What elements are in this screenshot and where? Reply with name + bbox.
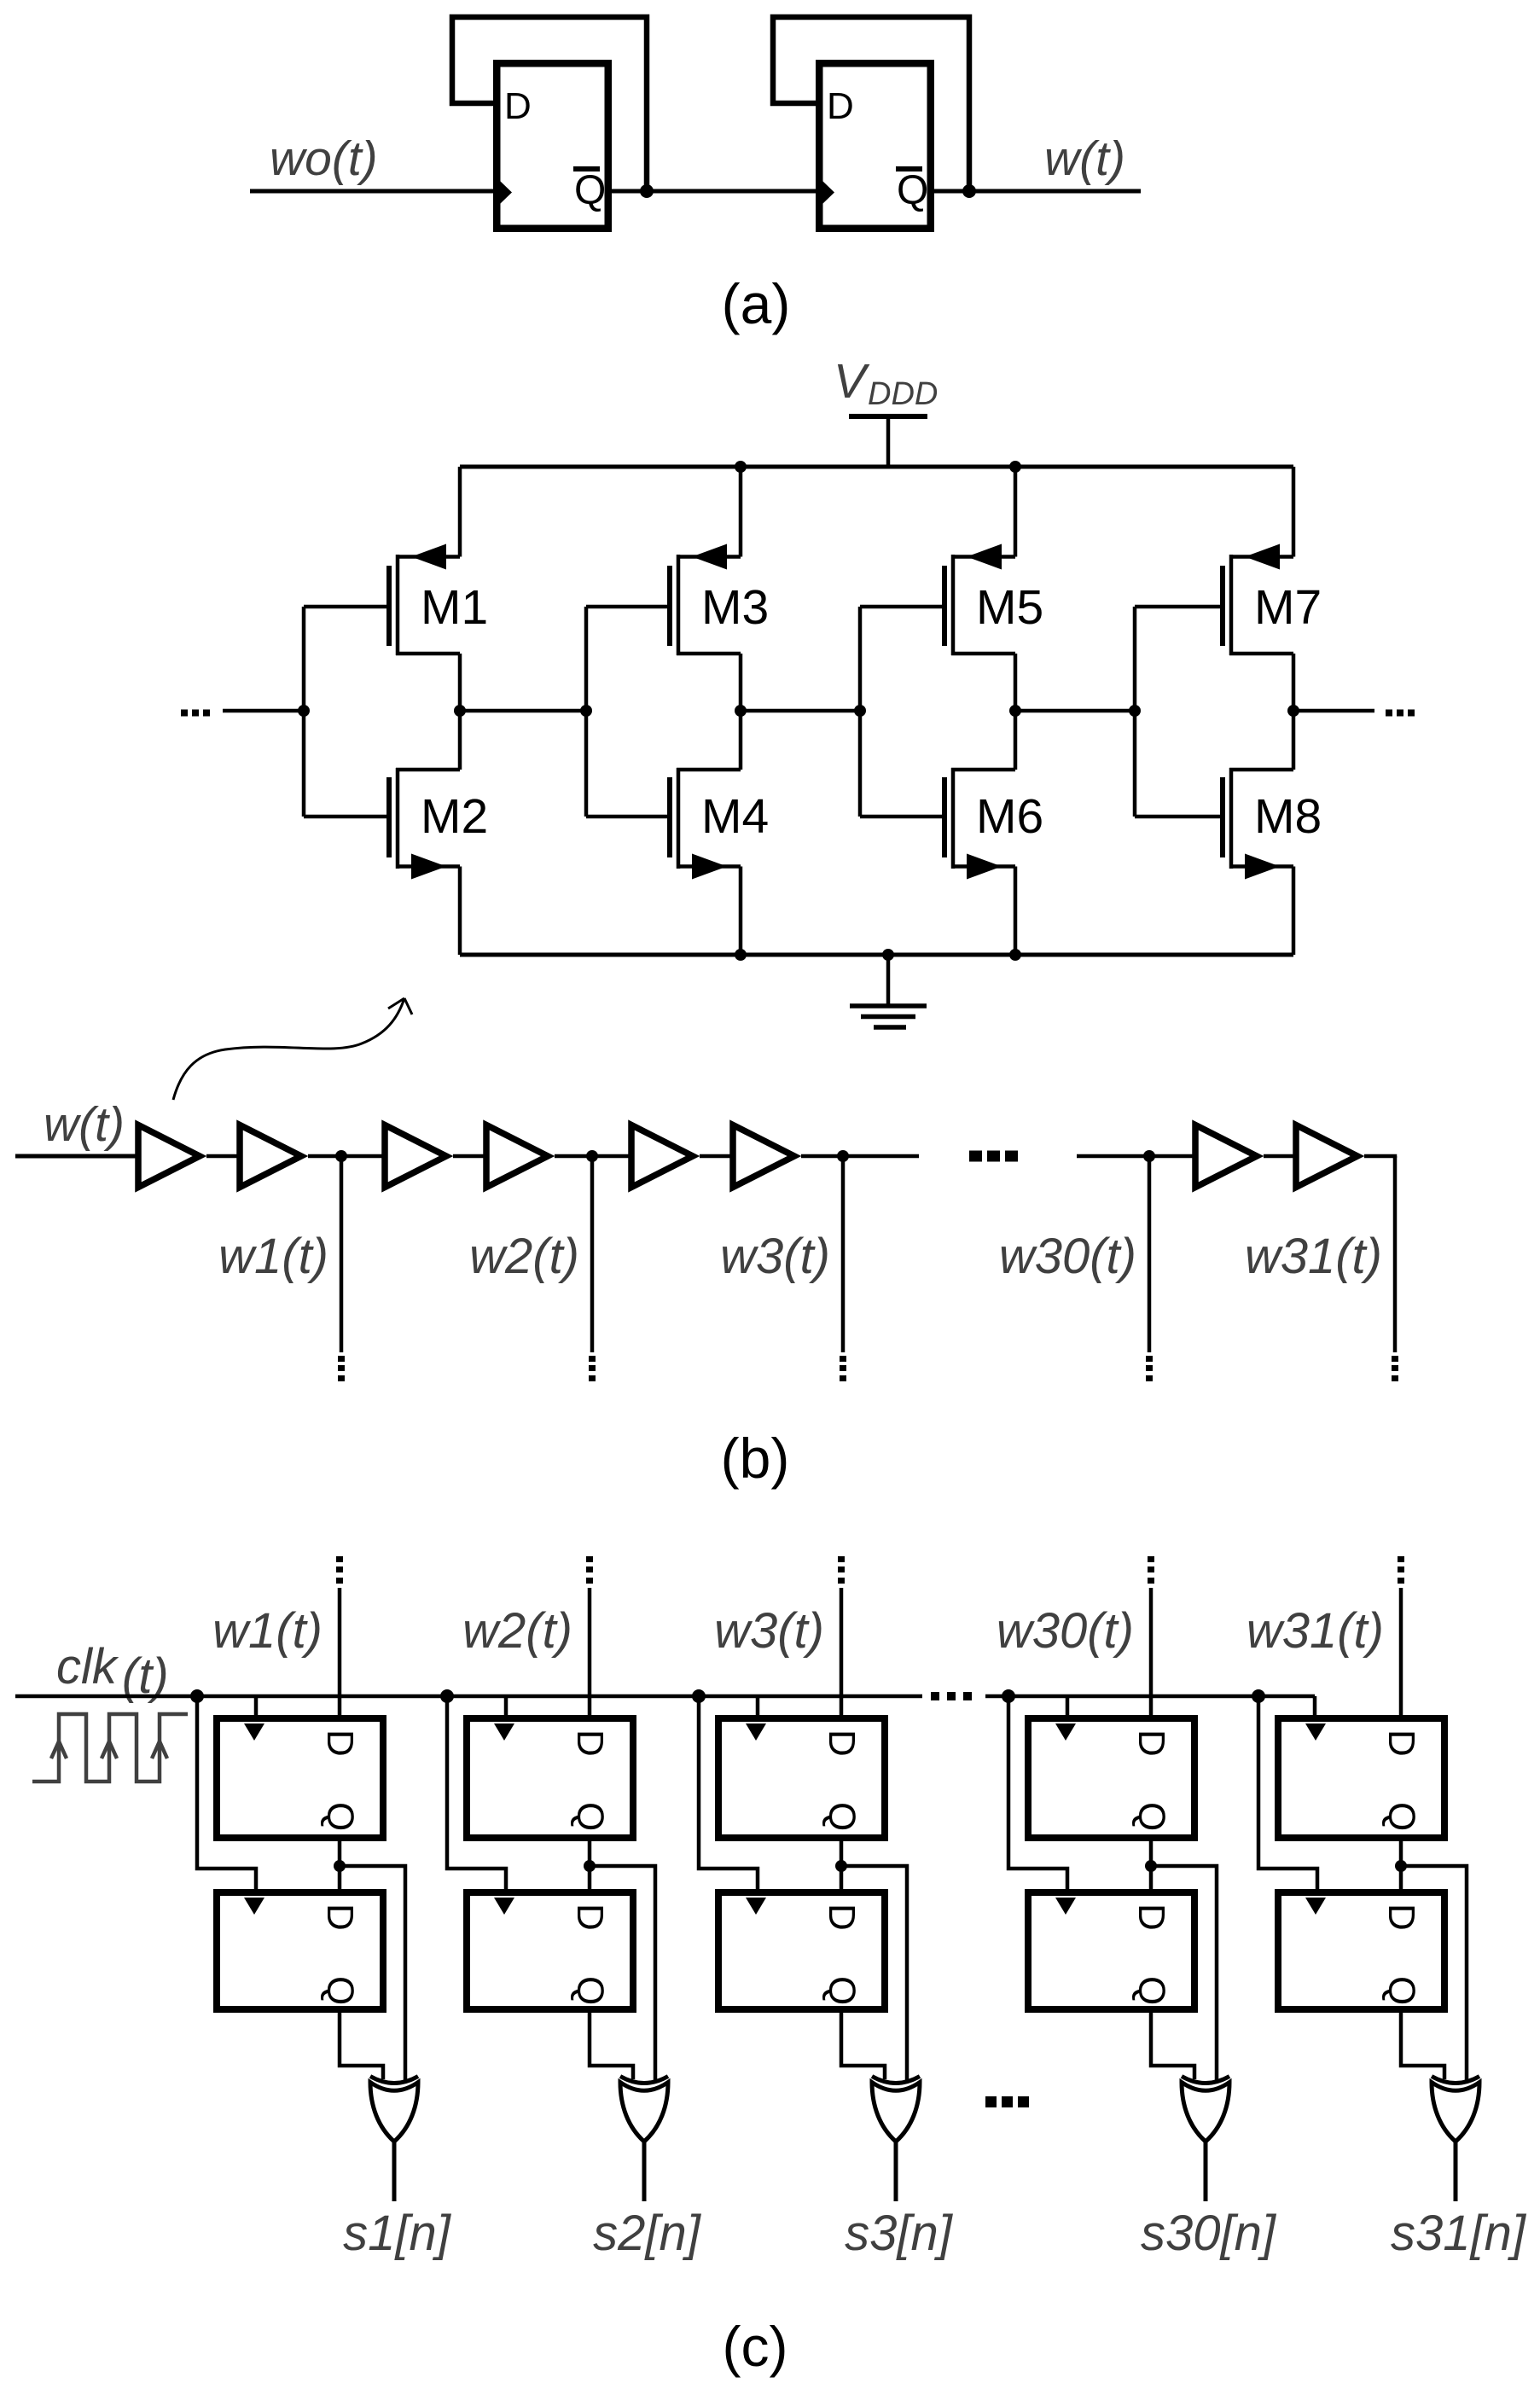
wire XOR input from Q4 node [1151, 1866, 1217, 2083]
transistor M4 (NMOS) [586, 711, 769, 955]
chain ellipsis [969, 1151, 1018, 1162]
svg-text:w31(t): w31(t) [1245, 1229, 1382, 1284]
node Q4 [1145, 1860, 1157, 1872]
wire B2 to tap w1 [308, 1154, 385, 1159]
wire B3-B4 [453, 1154, 486, 1159]
wire tap w3(t) vertical [841, 1156, 846, 1352]
continuation dashes w3(t) [840, 1356, 846, 1381]
svg-text:s3[n]: s3[n] [845, 2206, 954, 2261]
wire clk route to FF1b [197, 1696, 256, 1892]
buffer B3 [385, 1125, 446, 1188]
D flip-flop FF1b [217, 1892, 383, 2009]
D flip-flop FF3b [718, 1892, 885, 2009]
svg-text:clk(t): clk(t) [56, 1639, 169, 1704]
buffer B5 [631, 1125, 693, 1188]
wire chain input [15, 1154, 140, 1159]
svg-text:Q: Q [319, 1802, 361, 1831]
svg-text:M2: M2 [421, 789, 488, 844]
XOR gate X5 [1432, 2077, 1479, 2142]
wire clk stub to FF2a [504, 1696, 508, 1718]
svg-text:D: D [821, 1729, 863, 1757]
node tap w1 [335, 1150, 347, 1162]
wire stage 3 output to stage 4 gates [1015, 709, 1135, 713]
wire B6 to tap w3 [801, 1154, 919, 1159]
wire clk stub to FF1a [254, 1696, 259, 1718]
buffer B2 [240, 1125, 301, 1188]
label VDDD [834, 354, 938, 412]
continuation dashes w31(t) top [1398, 1556, 1404, 1584]
node clk tap column 4 [1002, 1689, 1015, 1703]
wire tap w1(t) vertical [340, 1156, 344, 1352]
node Q1 [334, 1860, 346, 1872]
wire XOR input from FF5b Q [1401, 2011, 1444, 2079]
node bottom rail M4 [735, 949, 747, 961]
wire wo(t) input to U1 [250, 189, 493, 194]
XOR gate X3 [872, 2077, 920, 2142]
wire XOR input from FF2b Q [590, 2011, 633, 2079]
svg-text:wo(t): wo(t) [270, 131, 378, 186]
wire B5-B6 [700, 1154, 733, 1159]
wire XOR output s1[n] [392, 2142, 397, 2201]
node output stage 4 [1287, 705, 1299, 717]
wire XOR input from FF3b Q [841, 2011, 885, 2079]
wire clk stub to FF5a [1313, 1696, 1317, 1718]
wire XOR input from Q3 node [841, 1866, 907, 2083]
wire w31(t) input vertical [1399, 1588, 1403, 1721]
D flip-flop FF2b [467, 1892, 633, 2009]
svg-text:D: D [319, 1729, 361, 1757]
svg-text:M7: M7 [1254, 580, 1322, 635]
svg-text:s1[n]: s1[n] [343, 2206, 452, 2261]
XOR gate X2 [620, 2077, 668, 2142]
wire tap w30(t) vertical [1148, 1156, 1152, 1352]
wire w1(t) input vertical [338, 1588, 342, 1721]
svg-text:D: D [569, 1729, 611, 1757]
svg-text:(b): (b) [721, 1427, 790, 1490]
svg-text:Q: Q [1130, 1976, 1172, 2005]
wire XOR input from FF1b Q [340, 2011, 383, 2079]
node clk tap column 5 [1252, 1689, 1265, 1703]
wire Q of FF1a down [338, 1841, 342, 1889]
svg-text:w(t): w(t) [1044, 131, 1125, 186]
transistor M2 (NMOS) [304, 711, 488, 955]
power VDDD symbol [849, 416, 927, 467]
wire B7-B8 [1264, 1154, 1296, 1159]
node clk tap column 1 [190, 1689, 204, 1703]
wire B1-B2 [206, 1154, 240, 1159]
continuation dashes w1(t) [338, 1356, 345, 1381]
svg-text:D: D [1130, 1729, 1172, 1757]
wire XOR output s31[n] [1454, 2142, 1458, 2201]
node input ellipsis (left) [181, 710, 210, 717]
node gate column stage 4 [1129, 607, 1141, 817]
svg-text:Q: Q [821, 1802, 863, 1831]
svg-text:Q: Q [574, 168, 606, 213]
svg-text:Q: Q [1380, 1976, 1422, 2005]
svg-text:Q: Q [821, 1976, 863, 2005]
svg-text:w1(t): w1(t) [212, 1603, 323, 1659]
svg-text:s2[n]: s2[n] [593, 2206, 702, 2261]
D flip-flop U2 [819, 63, 931, 229]
svg-text:D: D [569, 1904, 611, 1931]
wire XOR input from Q5 node [1401, 1866, 1467, 2083]
wire clk line left [15, 1694, 922, 1699]
D flip-flop FF4a [1028, 1718, 1194, 1838]
wire XOR output s3[n] [894, 2142, 898, 2201]
D flip-flop FF3a [718, 1718, 885, 1838]
svg-text:w3(t): w3(t) [720, 1229, 830, 1284]
transistor M3 (PMOS) [586, 467, 769, 711]
D flip-flop U1 [497, 63, 608, 229]
buffer B1 [138, 1125, 200, 1188]
XOR gate X4 [1182, 2077, 1229, 2142]
svg-text:D: D [504, 85, 532, 127]
XOR gate X1 [370, 2077, 418, 2142]
clock waveform symbol [32, 1714, 188, 1782]
node output stage 2 [735, 705, 747, 717]
svg-text:w1(t): w1(t) [218, 1229, 328, 1284]
D flip-flop FF5b [1278, 1892, 1444, 2009]
wire B4 to tap w2 [555, 1154, 631, 1159]
svg-text:Q: Q [1380, 1802, 1422, 1831]
feedback wire U2 Qbar to D [773, 17, 969, 191]
svg-text:s31[n]: s31[n] [1391, 2206, 1527, 2261]
wire tap w30 to B7 [1077, 1154, 1195, 1159]
wire stage 2 output to stage 3 gates [741, 709, 860, 713]
svg-text:M4: M4 [701, 789, 769, 844]
node output ellipsis (right) [1386, 710, 1415, 717]
svg-text:D: D [319, 1904, 361, 1931]
svg-text:w(t): w(t) [44, 1097, 125, 1152]
D flip-flop FF2a [467, 1718, 633, 1838]
ground symbol [850, 955, 927, 1027]
node top rail M3 [735, 461, 747, 473]
node clk tap column 2 [440, 1689, 454, 1703]
svg-text:Q: Q [569, 1802, 611, 1831]
wire ground bottom rail [460, 953, 1293, 957]
node tap w30 [1143, 1150, 1155, 1162]
svg-text:Q: Q [319, 1976, 361, 2005]
svg-text:D: D [1380, 1729, 1422, 1757]
node Q5 [1395, 1860, 1407, 1872]
svg-text:M3: M3 [701, 580, 769, 635]
transistor M6 (NMOS) [860, 711, 1043, 955]
wire stage 1 output to stage 2 gates [460, 709, 586, 713]
svg-text:M6: M6 [976, 789, 1043, 844]
annotation curved arrow [173, 998, 412, 1100]
wire clk stub to FF3a [756, 1696, 760, 1718]
node gate column stage 3 [854, 607, 866, 817]
buffer B8 [1296, 1125, 1357, 1188]
XOR row ellipsis [985, 2096, 1029, 2107]
node top rail M5 [1009, 461, 1021, 473]
svg-text:V: V [834, 354, 870, 409]
wire w(t) output [934, 189, 1141, 194]
wire Q of FF2a down [588, 1841, 592, 1889]
wire XOR input from Q1 node [340, 1866, 405, 2083]
wire w30(t) input vertical [1149, 1588, 1154, 1721]
svg-text:w30(t): w30(t) [999, 1229, 1136, 1284]
node gate column stage 1 [298, 607, 310, 817]
wire XOR input from Q2 node [590, 1866, 655, 2083]
node bottom rail M6 [1009, 949, 1021, 961]
node Q2 [584, 1860, 596, 1872]
svg-text:D: D [827, 85, 854, 127]
node output stage 1 [454, 705, 466, 717]
svg-text:w30(t): w30(t) [997, 1603, 1134, 1659]
svg-text:(c): (c) [723, 2315, 788, 2378]
svg-text:M8: M8 [1254, 789, 1322, 844]
continuation dashes w2(t) [589, 1356, 596, 1381]
svg-text:Q: Q [1130, 1802, 1172, 1831]
node output stage 3 [1009, 705, 1021, 717]
wire clk route to FF4b [1008, 1696, 1067, 1892]
node clk tap column 3 [692, 1689, 706, 1703]
feedback wire U1 Qbar to D [452, 17, 647, 191]
svg-text:D: D [1380, 1904, 1422, 1931]
wire clk route to FF2b [447, 1696, 506, 1892]
wire input to M1/M2 gates [223, 709, 304, 713]
node tap w2 [586, 1150, 598, 1162]
wire w2(t) input vertical [588, 1588, 592, 1721]
svg-text:(a): (a) [722, 272, 791, 335]
wire B8 to tap w31 [1364, 1156, 1395, 1158]
wire XOR output s30[n] [1204, 2142, 1208, 2201]
D flip-flop FF5a [1278, 1718, 1444, 1838]
wire tap w2(t) vertical [590, 1156, 595, 1352]
transistor M8 (NMOS) [1135, 711, 1322, 955]
svg-text:M5: M5 [976, 580, 1043, 635]
node bottom rail ground tap [882, 949, 894, 961]
transistor M7 (PMOS) [1135, 467, 1322, 711]
wire XOR output s2[n] [642, 2142, 647, 2201]
wire w3(t) input vertical [840, 1588, 844, 1721]
svg-text:Q: Q [569, 1976, 611, 2005]
wire clk route to FF5b [1258, 1696, 1317, 1892]
wire Q of FF5a down [1399, 1841, 1403, 1889]
transistor M1 (PMOS) [304, 467, 488, 711]
wire Q of FF4a down [1149, 1841, 1154, 1889]
svg-text:D: D [821, 1904, 863, 1931]
wire clk route to FF3b [699, 1696, 758, 1892]
svg-text:w2(t): w2(t) [469, 1229, 579, 1284]
wire Q of FF3a down [840, 1841, 844, 1889]
svg-text:Q: Q [897, 168, 928, 213]
wire tap w31(t) vertical [1393, 1156, 1398, 1352]
svg-text:DDD: DDD [868, 376, 938, 412]
continuation dashes w1(t) top [336, 1556, 343, 1584]
junction node U1 output [640, 184, 654, 198]
clk line ellipsis [931, 1692, 972, 1700]
wire U1 to U2 [612, 189, 816, 194]
transistor M5 (PMOS) [860, 467, 1043, 711]
wire clk stub to FF4a [1066, 1696, 1070, 1718]
D flip-flop FF1a [217, 1718, 383, 1838]
continuation dashes w31(t) [1392, 1356, 1398, 1381]
D flip-flop FF4b [1028, 1892, 1194, 2009]
wire XOR input from FF4b Q [1151, 2011, 1194, 2079]
junction node U2 output [962, 184, 976, 198]
wire stage 4 output [1293, 709, 1374, 713]
buffer B7 [1195, 1125, 1257, 1188]
svg-text:D: D [1130, 1904, 1172, 1931]
node gate column stage 2 [580, 607, 592, 817]
svg-text:M1: M1 [421, 580, 488, 635]
node tap w3 [837, 1150, 849, 1162]
svg-text:w31(t): w31(t) [1247, 1603, 1384, 1659]
wire clk line right [985, 1694, 1315, 1699]
continuation dashes w3(t) top [838, 1556, 845, 1584]
wire VDD top rail [460, 465, 1293, 469]
buffer B4 [486, 1125, 548, 1188]
node Q3 [835, 1860, 847, 1872]
continuation dashes w30(t) top [1148, 1556, 1154, 1584]
svg-text:w2(t): w2(t) [462, 1603, 572, 1659]
svg-text:s30[n]: s30[n] [1141, 2206, 1277, 2261]
svg-text:w3(t): w3(t) [714, 1603, 824, 1659]
continuation dashes w30(t) [1146, 1356, 1153, 1381]
buffer B6 [733, 1125, 794, 1188]
continuation dashes w2(t) top [586, 1556, 593, 1584]
